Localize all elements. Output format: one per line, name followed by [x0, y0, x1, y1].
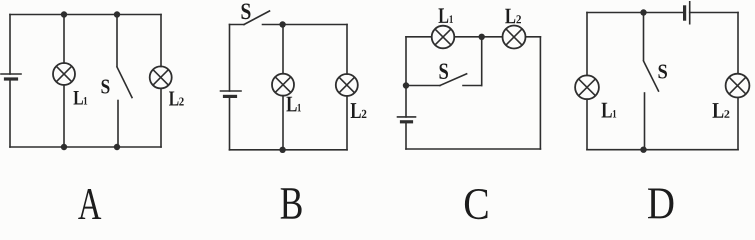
wire B top-right (from switch): [263, 24, 348, 26]
wire D right upper: [737, 13, 739, 74]
battery of circuit C: short plate: [402, 120, 412, 123]
wire B right lower: [346, 96, 348, 150]
junction D bottom node: [640, 147, 646, 153]
battery of circuit A: long plate: [1, 73, 21, 75]
lamp L2 of circuit C: [503, 26, 526, 49]
label answer choice C: [465, 189, 488, 219]
label L1 (D): [601, 103, 616, 118]
battery of circuit A: short plate: [6, 77, 17, 80]
label L2 (C): [505, 9, 521, 24]
wire B right upper: [346, 25, 348, 75]
wire B left lower: [229, 96, 231, 149]
wire B left upper (to battery): [229, 25, 231, 92]
wire C left lower: [405, 122, 407, 149]
junction C top node: [479, 34, 485, 40]
label S (C): [439, 64, 447, 79]
circuit A: [1, 11, 184, 150]
label S (A): [101, 80, 109, 94]
wire D top-right: [690, 12, 738, 14]
wire A left upper (to battery): [9, 15, 11, 75]
junction A top node 1: [61, 11, 67, 17]
wire A branch L1 lower: [63, 85, 65, 147]
circuit D: [575, 2, 749, 153]
switch S of circuit C (blade): [440, 74, 467, 86]
label answer choice A: [78, 189, 101, 219]
wire D left lower: [586, 99, 588, 150]
battery of circuit D: long plate: [689, 2, 691, 24]
switch S of circuit B (blade): [244, 11, 270, 25]
lamp L1 of circuit C: [432, 26, 455, 49]
wire A bottom: [10, 146, 161, 148]
wire D left upper: [586, 13, 588, 76]
switch S of circuit D: [644, 13, 659, 150]
wire A branch L1 upper: [63, 15, 65, 64]
label S (D): [658, 65, 666, 79]
label L1 (A): [74, 91, 88, 105]
battery of circuit B: long plate: [221, 90, 242, 92]
circuit B: [221, 4, 367, 153]
junction A bottom node 2: [114, 144, 120, 150]
wire C switch branch left: [406, 85, 440, 87]
wire B bottom: [230, 149, 348, 151]
label L2 (D): [713, 103, 730, 118]
wire C left (battery section): [405, 86, 407, 117]
lamp L1 of circuit B: [272, 74, 294, 96]
lamp L2 of circuit D: [726, 74, 750, 98]
wire B branch L1 lower: [282, 96, 284, 150]
junction A top node 2: [114, 11, 120, 17]
label L1 (C): [438, 8, 452, 22]
junction C left node: [403, 82, 409, 88]
wire A top: [10, 14, 161, 16]
wire C mid-node drop: [481, 37, 483, 86]
wire C left upper: [405, 37, 407, 86]
label L2 (A): [169, 91, 184, 105]
wire D right lower: [737, 98, 739, 150]
wire C top segment 3: [526, 36, 541, 38]
wire C bottom: [406, 148, 540, 150]
wire C right: [539, 37, 541, 149]
battery of circuit C: long plate: [398, 116, 416, 118]
lamp L2 of circuit A: [150, 66, 172, 88]
wire C top segment 1: [406, 36, 432, 38]
wire A right lower: [160, 88, 162, 147]
label answer choice D: [648, 189, 673, 219]
battery of circuit B: short plate: [225, 95, 236, 98]
label L1 (B): [286, 97, 301, 112]
junction D top node: [640, 9, 646, 15]
wire D top-left: [587, 12, 685, 14]
wire A right upper: [160, 15, 162, 67]
junction B bottom node: [279, 147, 285, 153]
lamp L1 of circuit D: [575, 75, 599, 99]
junction A bottom node 1: [61, 144, 67, 150]
circuit C: [398, 8, 541, 149]
lamp L2 of circuit B: [336, 74, 358, 96]
wire C switch branch right: [463, 85, 482, 87]
lamp L1 of circuit A: [53, 63, 75, 85]
wire D bottom: [587, 149, 738, 151]
label S (B): [241, 4, 250, 20]
wire C top segment 2: [454, 36, 502, 38]
switch S of circuit A: [117, 15, 132, 148]
label answer choice B: [281, 188, 302, 218]
label L2 (B): [351, 103, 367, 118]
wire B top-left (to switch): [230, 24, 245, 26]
junction B top node: [279, 21, 285, 27]
wire A left lower (from battery): [9, 79, 11, 147]
battery of circuit D: short plate: [683, 7, 686, 19]
wire B branch L1 upper: [282, 25, 284, 74]
